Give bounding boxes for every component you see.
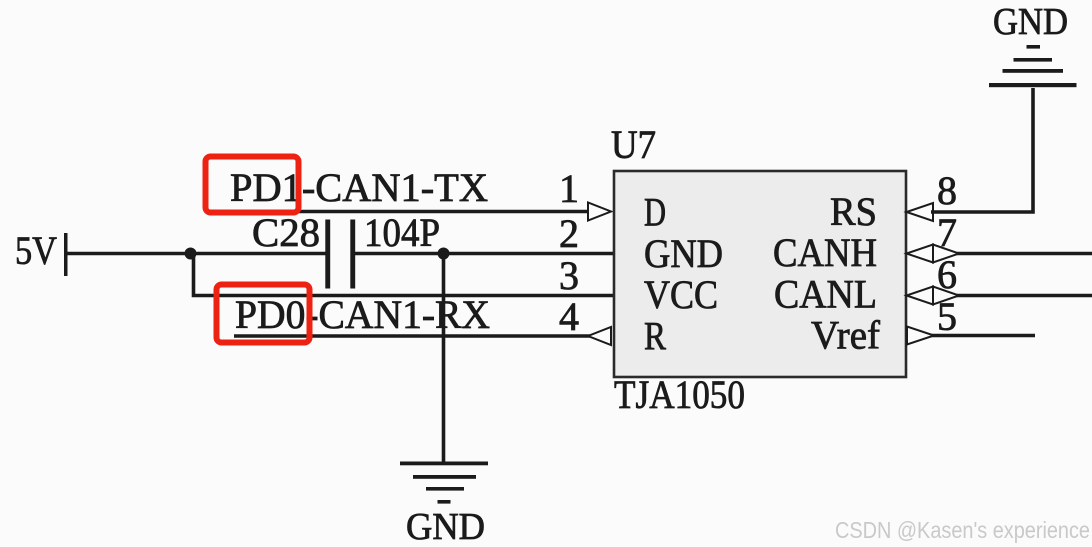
svg-text:CSDN @Kasen's experience: CSDN @Kasen's experience: [835, 517, 1090, 543]
wire 5V rail to capacitor left plate: [67, 252, 326, 256]
pin 4 output arrow: [588, 327, 611, 345]
junction node at capacitor output: [438, 248, 450, 260]
svg-text:GND: GND: [993, 1, 1068, 43]
svg-text:C28: C28: [252, 210, 320, 255]
capacitor C28 right plate: [350, 220, 355, 289]
wire capacitor right plate to junction: [355, 252, 444, 256]
pin 8 input arrow: [907, 203, 934, 221]
pin 7 bidirectional arrow right: [933, 245, 959, 263]
wire junction to pin 2: [444, 252, 614, 256]
svg-text:4: 4: [559, 294, 579, 339]
pin 5 output arrow: [907, 327, 934, 345]
svg-text:GND: GND: [644, 231, 723, 276]
5V supply bar: [64, 233, 68, 276]
svg-text:3: 3: [559, 253, 579, 298]
svg-text:104P: 104P: [364, 210, 440, 255]
svg-text:2: 2: [559, 211, 579, 256]
pin 1 input arrow: [588, 203, 611, 221]
svg-text:1: 1: [559, 166, 579, 211]
wire CANH to edge: [957, 252, 1092, 256]
ground symbol top bar tiny: [1027, 45, 1041, 49]
junction node at 5V rail: [185, 248, 197, 260]
pin 6 bidirectional arrow left: [907, 287, 934, 305]
wire pin 8 to ground stem: [931, 88, 1033, 212]
ground symbol bottom bar 1: [400, 462, 488, 466]
pin 6 bidirectional arrow right: [933, 287, 959, 305]
wire net PD1-CAN1-TX to pin 1: [233, 210, 590, 214]
ground symbol bottom bar 2: [413, 475, 476, 479]
svg-text:7: 7: [937, 210, 957, 255]
wire junction down to VCC row: [194, 254, 614, 296]
capacitor C28 left plate: [325, 220, 330, 289]
ground symbol bottom bar 3: [426, 487, 464, 491]
svg-text:GND: GND: [406, 506, 485, 547]
ground symbol top bar small: [1014, 58, 1053, 62]
svg-text:RS: RS: [830, 189, 877, 234]
svg-text:CANL: CANL: [774, 272, 877, 317]
annotation red box around PD0: [217, 285, 310, 343]
wire junction down to ground: [442, 254, 446, 464]
op-amp U7 IC body TJA1050: [614, 171, 906, 377]
svg-text:TJA1050: TJA1050: [614, 372, 745, 417]
annotation red box around PD1: [206, 157, 299, 213]
ground symbol bottom bar 4: [438, 500, 451, 504]
wire Vref stub: [931, 334, 1035, 338]
svg-text:5V: 5V: [15, 228, 57, 273]
wire CANL to edge: [957, 294, 1092, 298]
svg-text:PD0-CAN1-RX: PD0-CAN1-RX: [235, 292, 490, 337]
svg-text:5: 5: [937, 294, 957, 339]
svg-text:PD1-CAN1-TX: PD1-CAN1-TX: [230, 165, 488, 210]
ground symbol top bar wide: [989, 83, 1077, 87]
wire net PD0-CAN1-RX to pin 4: [234, 334, 590, 338]
svg-text:R: R: [644, 314, 666, 359]
svg-text:Vref: Vref: [811, 313, 881, 358]
pin 7 bidirectional arrow left: [907, 245, 934, 263]
svg-text:6: 6: [937, 252, 957, 297]
svg-text:VCC: VCC: [644, 272, 718, 317]
svg-text:D: D: [644, 190, 666, 235]
svg-text:U7: U7: [611, 122, 656, 167]
svg-text:8: 8: [937, 168, 957, 213]
svg-text:CANH: CANH: [773, 230, 877, 275]
ground symbol top bar mid: [1003, 69, 1064, 73]
